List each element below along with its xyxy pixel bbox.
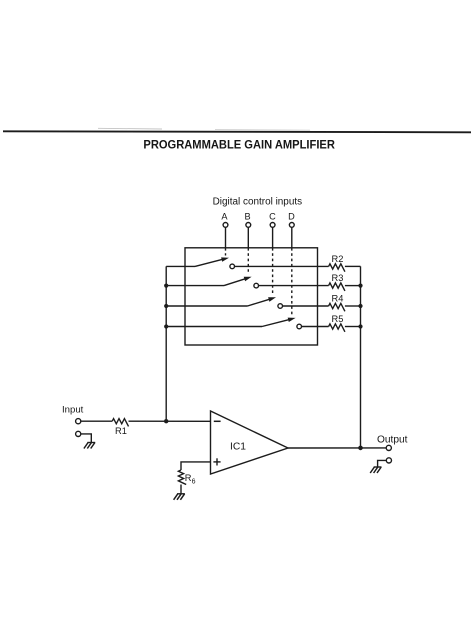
svg-text:PROGRAMMABLE GAIN AMPLIFIER: PROGRAMMABLE GAIN AMPLIFIER: [143, 138, 335, 152]
svg-text:A: A: [221, 212, 228, 222]
svg-text:C: C: [269, 212, 276, 222]
svg-text:R2: R2: [332, 254, 344, 264]
svg-text:6: 6: [192, 479, 196, 486]
svg-text:R4: R4: [332, 293, 344, 303]
svg-text:D: D: [288, 212, 295, 222]
svg-text:B: B: [245, 212, 251, 222]
svg-text:R1: R1: [115, 426, 127, 436]
svg-text:Input: Input: [62, 405, 84, 416]
svg-text:R3: R3: [332, 273, 344, 283]
svg-text:Output: Output: [377, 435, 408, 446]
svg-text:R5: R5: [332, 314, 344, 324]
svg-text:IC1: IC1: [230, 442, 246, 453]
svg-text:Digital control inputs: Digital control inputs: [213, 196, 303, 207]
